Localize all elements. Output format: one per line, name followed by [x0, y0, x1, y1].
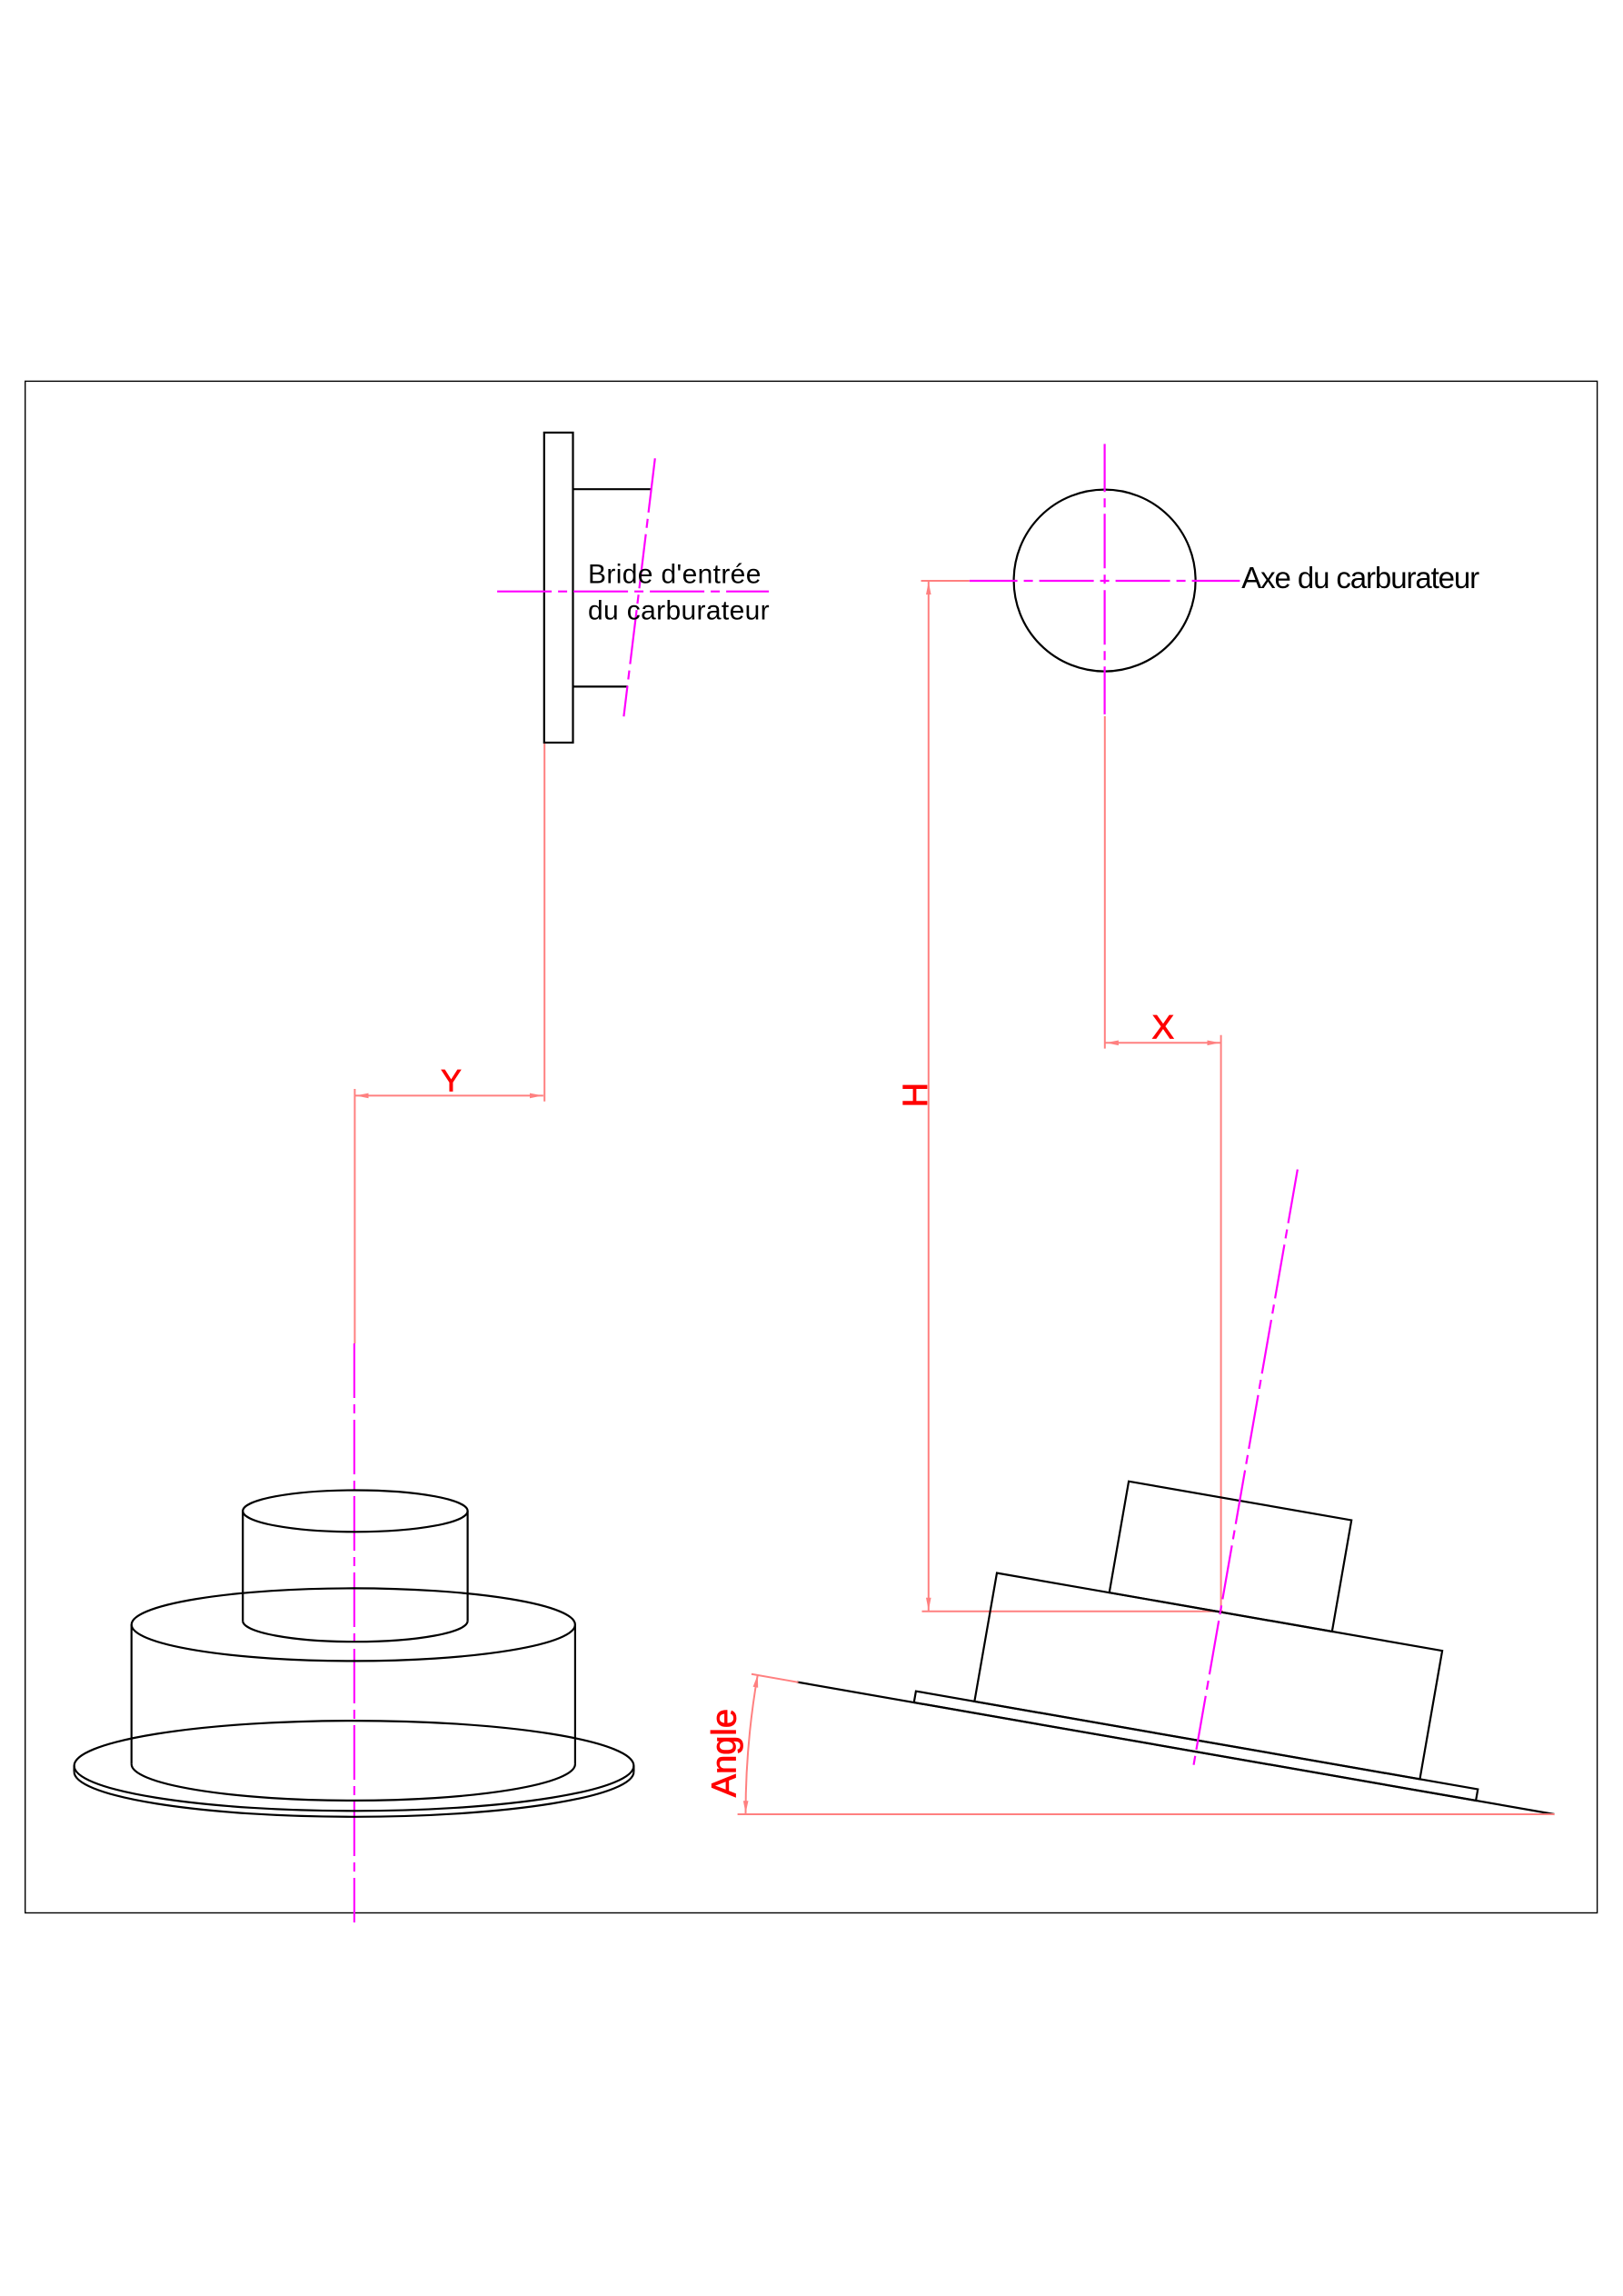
carburetor top block (top tier, tilted)	[1110, 1482, 1351, 1632]
middle tier top ellipse	[132, 1588, 575, 1661]
svg-text:Y: Y	[441, 1063, 462, 1098]
svg-text:Angle: Angle	[706, 1709, 744, 1797]
carburetor body top edge	[573, 488, 651, 490]
top cylinder right side	[466, 1511, 468, 1621]
angle arc arrow bottom (down)	[743, 1801, 749, 1813]
top cylinder bottom arc	[243, 1621, 467, 1642]
carburetor body bottom edge	[573, 685, 628, 687]
middle tier right side	[574, 1624, 576, 1764]
X dimension right extension down to axis point	[1220, 1035, 1222, 1612]
H arrow bottom (down)	[926, 1598, 931, 1611]
magenta vertical centerline of base	[353, 1343, 355, 1922]
H dimension vertical line	[928, 581, 930, 1612]
base plate bottom arc (thickness)	[75, 1772, 634, 1817]
carburetor base block (middle tier, tilted)	[974, 1573, 1442, 1780]
H dimension short horizontal link at circle center	[921, 580, 970, 582]
magenta tilted carburetor axis	[1193, 1170, 1298, 1769]
carburetor bore circle	[1014, 490, 1196, 672]
base plate outer ellipse	[75, 1721, 634, 1811]
angle dimension arc	[745, 1675, 757, 1815]
horizontal reference line (angle base)	[738, 1813, 1555, 1815]
flange plate (bride)	[544, 433, 573, 743]
magenta horizontal centerline of circle	[970, 580, 1240, 582]
magenta tilted centerline of flange	[623, 458, 654, 716]
border frame	[25, 381, 1598, 1912]
svg-text:H: H	[897, 1083, 935, 1107]
middle tier left side	[131, 1624, 133, 1764]
H dimension bottom horizontal line to axis point	[922, 1611, 1223, 1612]
Y arrow right	[530, 1093, 543, 1099]
middle tier bottom arc	[132, 1764, 575, 1801]
salmon extension of incline (angle dimension)	[752, 1674, 799, 1682]
svg-text:du carburateur: du carburateur	[588, 595, 770, 625]
X arrow right	[1208, 1041, 1220, 1046]
H arrow top (up)	[926, 582, 931, 594]
svg-text:Axe du carburateur: Axe du carburateur	[1241, 561, 1479, 594]
angle arc arrow top (up along incline)	[753, 1675, 759, 1688]
salmon extension line from flange bottom down	[543, 744, 545, 1102]
Y dimension extension line (left, above cake axis)	[353, 1089, 355, 1343]
X dimension line	[1105, 1042, 1221, 1043]
X arrow left	[1106, 1041, 1119, 1046]
svg-text:Bride d'entrée: Bride d'entrée	[588, 559, 762, 589]
thin spacer plate on incline	[914, 1692, 1479, 1801]
magenta vertical centerline of circle	[1103, 444, 1105, 714]
magenta horizontal centerline of flange	[493, 591, 769, 593]
X dimension left extension (below circle centerline)	[1104, 716, 1106, 1049]
inclined manifold face line	[797, 1682, 1555, 1814]
base plate left edge	[73, 1766, 75, 1772]
top cylinder left side	[242, 1511, 244, 1621]
base plate right edge	[632, 1766, 634, 1772]
Y dimension line	[354, 1094, 543, 1096]
top cylinder top ellipse	[243, 1491, 467, 1532]
svg-text:X: X	[1152, 1009, 1175, 1046]
Y arrow left	[356, 1093, 369, 1099]
